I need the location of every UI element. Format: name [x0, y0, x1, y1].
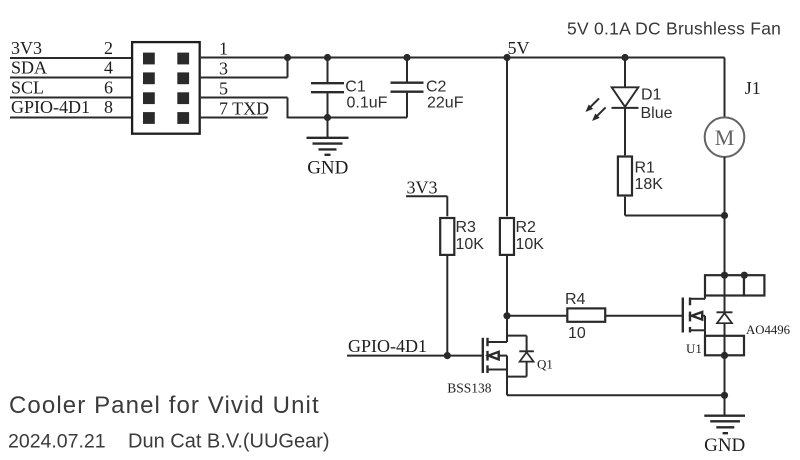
wire R2 bottom to Q1 drain	[506, 255, 508, 342]
wire net 3V3 pin2	[10, 57, 131, 59]
capacitor C1 bottom lead	[327, 92, 329, 117]
connector pad pin5	[177, 92, 189, 104]
svg-text:C1: C1	[345, 79, 366, 96]
wire pin5 horizontal	[201, 97, 288, 99]
svg-text:R4: R4	[565, 291, 586, 308]
LED D1 triangle	[612, 87, 639, 107]
connector header body	[132, 42, 200, 134]
svg-text:3V3: 3V3	[11, 38, 42, 58]
capacitor C1 plates	[311, 83, 344, 92]
wire fan branch upper	[724, 58, 726, 118]
svg-text:U1: U1	[686, 341, 702, 356]
mosfet Q1 channel segments	[486, 338, 488, 373]
U1 drain pad box 2	[744, 275, 764, 295]
junction R2 R4 Q1 drain	[503, 312, 510, 319]
svg-text:3: 3	[219, 59, 228, 79]
wire R4 right lead to U1 gate	[606, 315, 682, 317]
svg-text:2: 2	[104, 38, 113, 58]
LED D1 bottom lead	[624, 108, 626, 155]
svg-text:Cooler Panel for Vivid Unit: Cooler Panel for Vivid Unit	[9, 392, 320, 419]
mosfet Q1 source lead	[488, 369, 508, 371]
resistor R1 body	[618, 157, 632, 196]
svg-text:5V 0.1A DC Brushless Fan: 5V 0.1A DC Brushless Fan	[567, 19, 781, 39]
svg-text:10K: 10K	[516, 236, 545, 253]
svg-text:4: 4	[104, 58, 113, 78]
svg-text:22uF: 22uF	[427, 95, 464, 112]
svg-text:AO4496: AO4496	[746, 323, 791, 337]
junction U1 drain pad 2	[741, 272, 748, 279]
junction U1 drain pad 1	[721, 272, 728, 279]
Q1 body diode upper lead	[526, 336, 528, 351]
wire R1 to fan branch	[625, 215, 725, 217]
svg-text:M: M	[715, 125, 735, 150]
svg-text:6: 6	[104, 78, 113, 98]
svg-text:8: 8	[104, 97, 113, 117]
svg-text:0.1uF: 0.1uF	[347, 95, 388, 112]
connector pad pin3	[177, 72, 189, 84]
junction R1 to fan branch	[721, 212, 728, 219]
svg-text:1: 1	[219, 39, 228, 59]
wire pin5 drop to gnd rail	[287, 98, 289, 119]
U1 body diode triangle	[717, 313, 732, 323]
LED D1 top lead	[624, 58, 626, 88]
junction pin3 on rail	[284, 54, 291, 61]
mosfet Q1 drain lead	[488, 341, 508, 343]
connector pad pin8	[143, 112, 155, 124]
capacitor C2 bottom lead	[406, 92, 408, 118]
svg-text:5: 5	[219, 79, 228, 99]
capacitor C2 plates	[391, 83, 424, 92]
motor J1 circle	[705, 117, 745, 157]
svg-text:R3: R3	[456, 219, 477, 236]
svg-text:Q1: Q1	[537, 357, 553, 372]
wire capacitor ground rail	[288, 117, 408, 119]
junction U1 source pad	[721, 352, 728, 359]
wire pin1 to 5V top rail	[201, 57, 725, 59]
connector pad pin6	[143, 92, 155, 104]
LED D1 cathode bar	[612, 107, 639, 109]
ground symbol left stem	[327, 118, 329, 138]
ground rail bottom	[507, 394, 725, 396]
Q1 body diode triangle	[520, 352, 534, 361]
wire GPIO-4D1 to Q1 gate	[347, 355, 482, 357]
ground symbol right stem	[724, 395, 726, 415]
mosfet U1 drain lead	[690, 296, 705, 299]
svg-text:GPIO-4D1: GPIO-4D1	[11, 97, 90, 117]
svg-text:Dun Cat B.V.(UUGear): Dun Cat B.V.(UUGear)	[128, 431, 330, 453]
svg-text:3V3: 3V3	[407, 178, 438, 198]
Q1 body diode loop top	[507, 335, 527, 337]
svg-text:D1: D1	[641, 87, 662, 104]
svg-text:SDA: SDA	[11, 58, 47, 78]
wire net SCL pin6	[10, 97, 131, 99]
junction C1 bottom	[324, 114, 331, 121]
mosfet U1 body lead with arrow	[692, 312, 705, 330]
junction 5V node	[503, 54, 510, 61]
svg-text:C2: C2	[426, 79, 447, 96]
capacitor C2 top lead	[406, 58, 408, 83]
wire U1 diode to gnd	[724, 323, 726, 395]
svg-text:GND: GND	[704, 435, 745, 456]
mosfet U1 source lead	[690, 330, 705, 336]
capacitor C1 top lead	[327, 58, 329, 84]
wire pin7 TXD stub	[201, 117, 268, 119]
resistor R2 body	[500, 218, 514, 255]
connector pad pin7	[177, 112, 189, 124]
wire 3V3 stub	[406, 196, 447, 216]
U1 body diode cathode bar	[717, 311, 733, 313]
wire R3 bottom to gpio wire	[446, 255, 448, 355]
mosfet Q1 gate bar	[482, 338, 484, 373]
LED light arrow 2	[592, 107, 606, 121]
junction C1 top	[324, 54, 331, 61]
mosfet Q1 body lead with arrow	[488, 352, 507, 360]
svg-text:GPIO-4D1: GPIO-4D1	[348, 336, 427, 356]
mosfet U1 channel segments	[689, 298, 691, 333]
wire pin3 horizontal	[201, 77, 288, 79]
wire 5V drop to R2	[506, 58, 508, 217]
resistor R4 body	[567, 308, 605, 321]
wire pin3 riser to rail	[287, 58, 289, 78]
svg-text:7 TXD: 7 TXD	[219, 99, 269, 119]
Q1 body diode loop bottom	[507, 376, 527, 378]
Q1 body diode cathode bar	[519, 350, 534, 352]
junction gnd rail	[721, 392, 728, 399]
svg-text:J1: J1	[745, 78, 761, 98]
Q1 body diode lower lead	[526, 362, 528, 377]
svg-text:18K: 18K	[635, 176, 664, 193]
svg-text:R1: R1	[635, 160, 656, 177]
connector pad pin1	[177, 53, 189, 65]
svg-text:5V: 5V	[508, 38, 530, 58]
svg-text:10: 10	[568, 325, 586, 342]
connector pad pin2	[143, 53, 155, 65]
svg-text:GND: GND	[307, 158, 348, 179]
junction D1 top	[621, 54, 628, 61]
wire fan branch lower through U1	[724, 157, 726, 312]
svg-text:10K: 10K	[456, 236, 485, 253]
wire R1 bottom lead	[624, 197, 626, 216]
svg-text:Blue: Blue	[641, 105, 673, 122]
connector pad pin4	[143, 72, 155, 84]
U1 source pad box	[705, 336, 744, 356]
resistor R3 body	[440, 218, 454, 255]
mosfet U1 gate bar	[682, 298, 684, 333]
svg-text:SCL: SCL	[11, 78, 44, 98]
wire Q1 source to gnd rail	[506, 356, 508, 396]
wire R4 left lead	[507, 315, 566, 317]
svg-text:2024.07.21: 2024.07.21	[8, 431, 106, 453]
ground symbol right bars	[704, 416, 745, 434]
junction R3 GPIO wire	[444, 352, 451, 359]
wire net GPIO-4D1 pin8	[10, 117, 131, 119]
LED light arrow 1	[586, 98, 600, 112]
wire net SDA pin4	[10, 77, 131, 79]
svg-text:R2: R2	[516, 219, 537, 236]
junction C2 top	[403, 54, 410, 61]
svg-text:BSS138: BSS138	[447, 381, 492, 396]
U1 drain pad box 1	[705, 275, 744, 295]
ground symbol left bars	[307, 138, 349, 155]
